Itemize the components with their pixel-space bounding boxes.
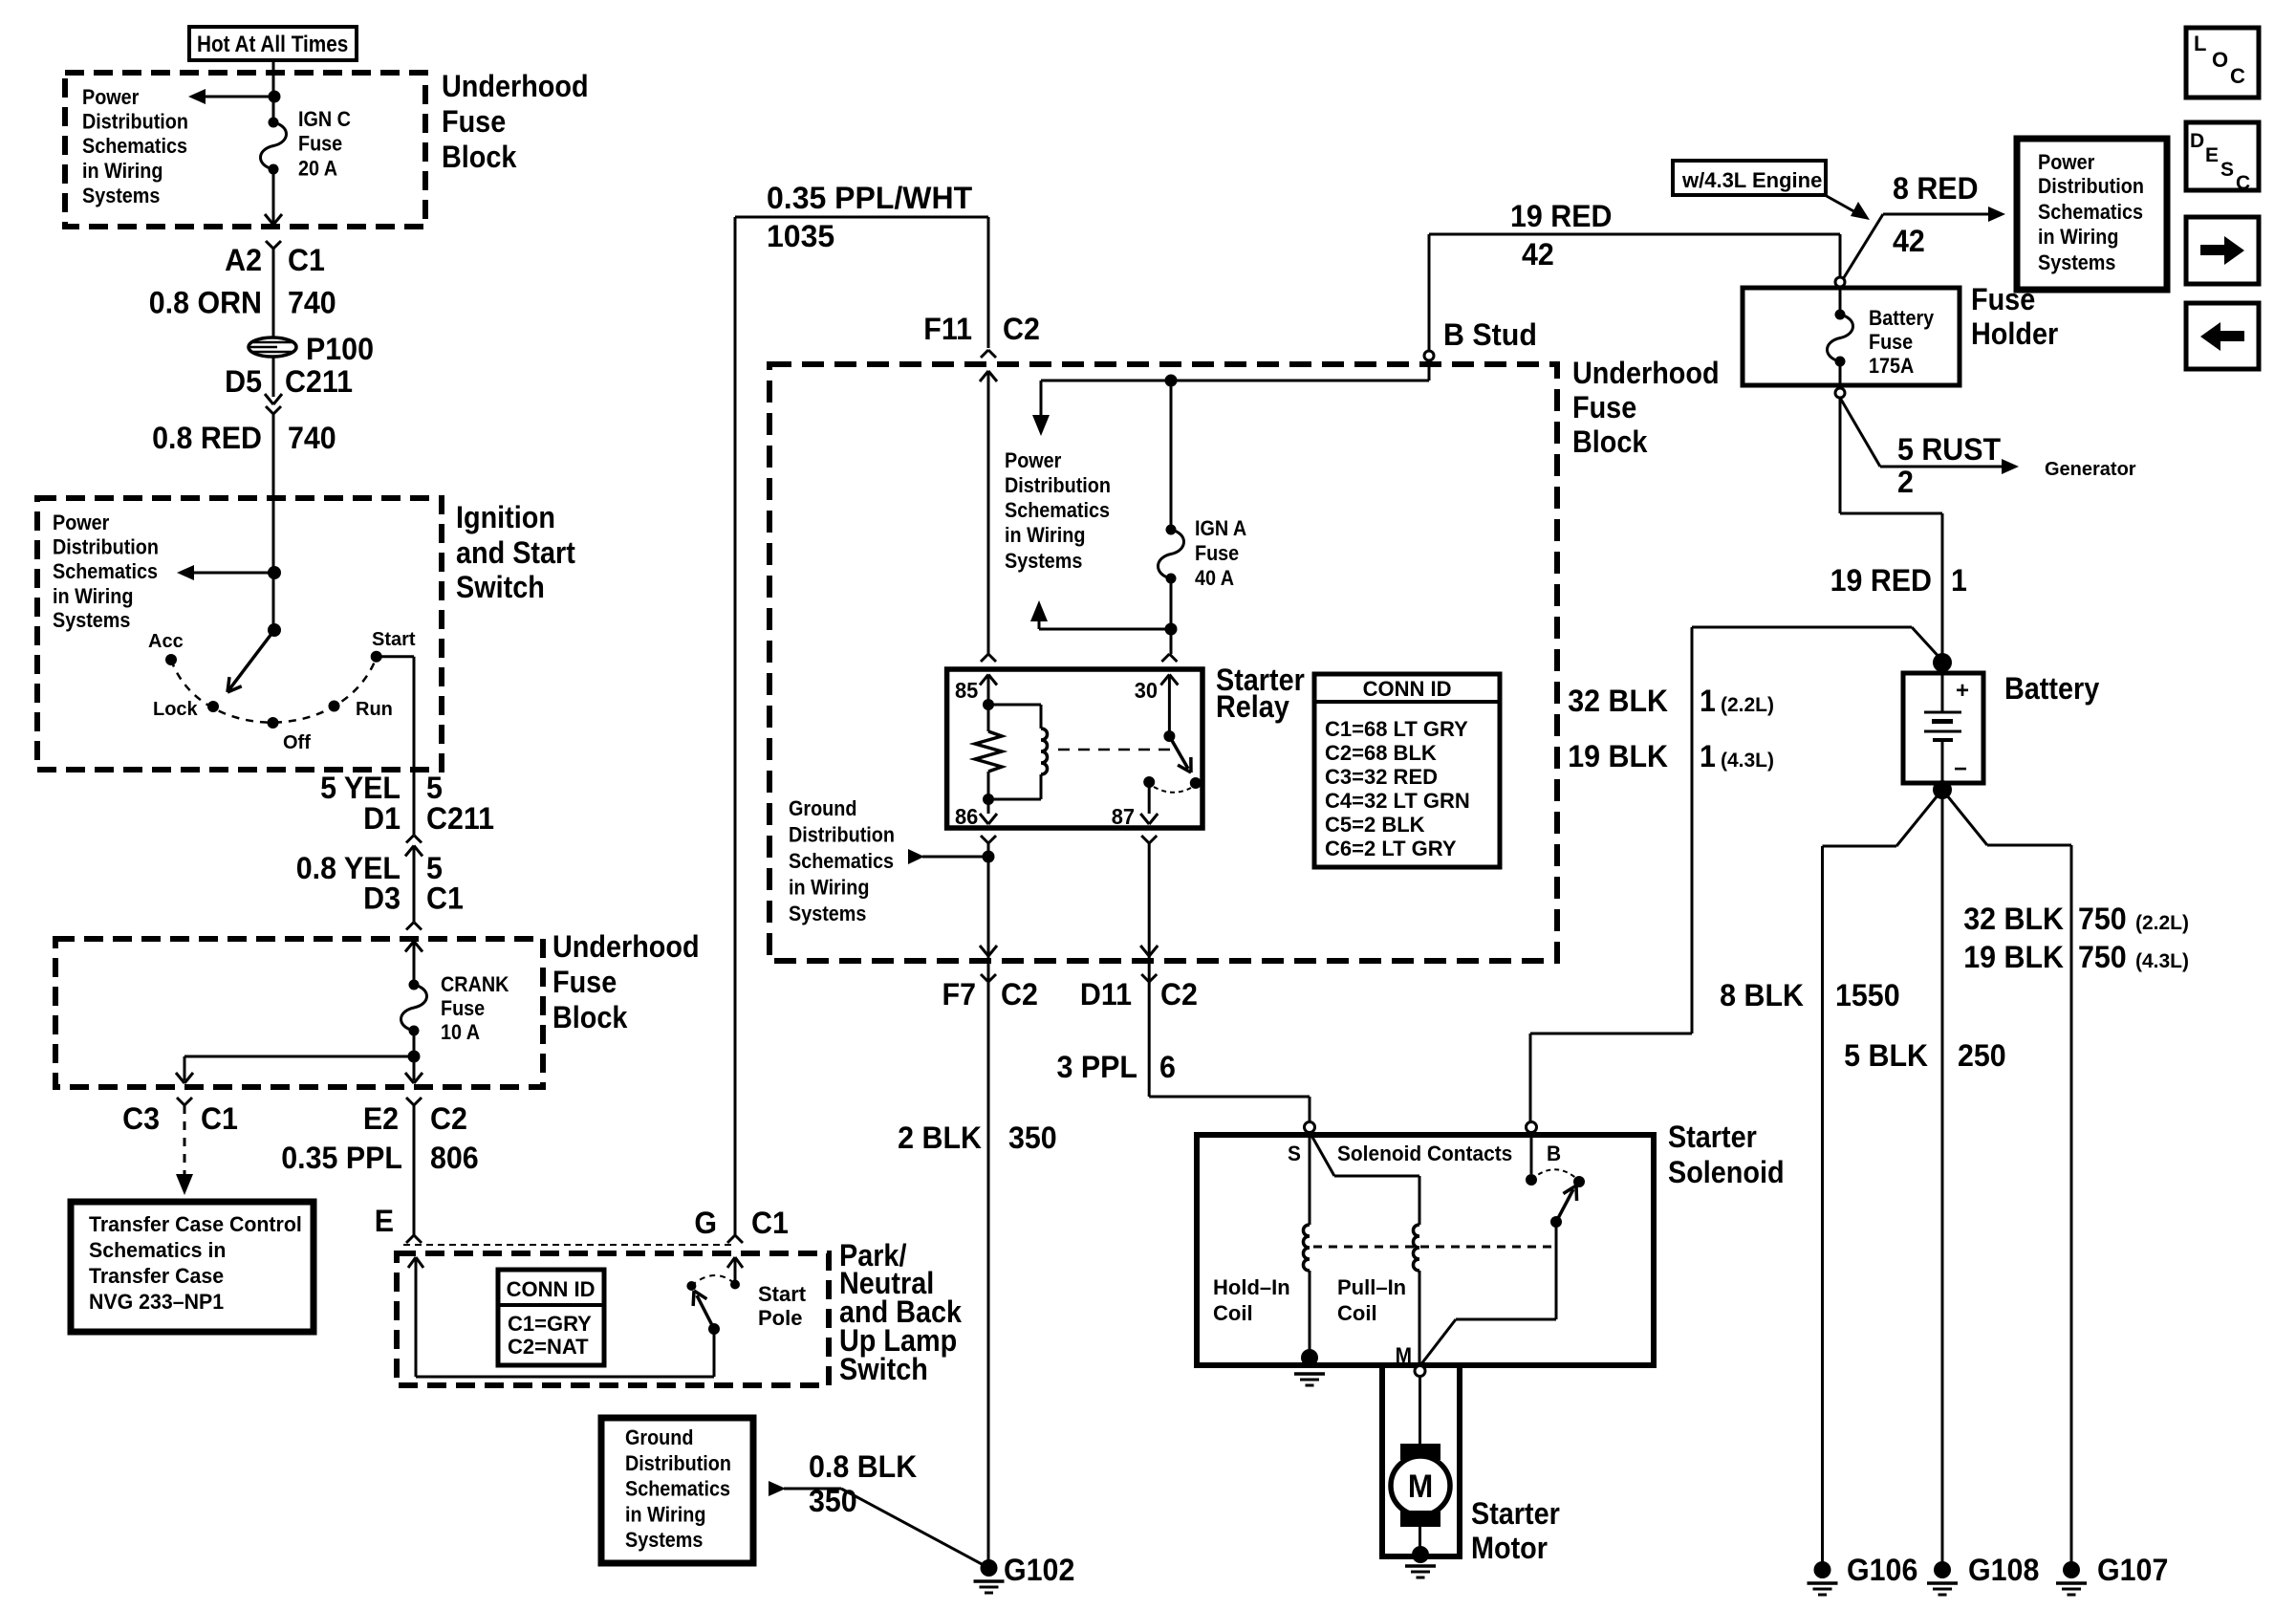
svg-text:806: 806 — [430, 1141, 479, 1175]
svg-text:Distribution: Distribution — [789, 824, 895, 847]
svg-text:in Wiring: in Wiring — [1005, 524, 1085, 547]
svg-text:CONN ID: CONN ID — [1363, 677, 1452, 701]
svg-text:175A: 175A — [1869, 355, 1914, 378]
svg-text:Ground: Ground — [789, 797, 856, 820]
svg-text:C211: C211 — [285, 364, 353, 399]
svg-text:O: O — [2212, 48, 2228, 72]
svg-text:Ground: Ground — [625, 1426, 693, 1449]
svg-text:40 A: 40 A — [1195, 567, 1234, 590]
svg-text:19 BLK: 19 BLK — [1568, 739, 1668, 773]
svg-text:19 RED: 19 RED — [1510, 199, 1612, 233]
svg-text:Relay: Relay — [1216, 690, 1289, 725]
svg-text:Distribution: Distribution — [2038, 175, 2144, 198]
svg-text:5 RUST: 5 RUST — [1897, 432, 2001, 467]
svg-text:Systems: Systems — [789, 903, 866, 925]
svg-text:Systems: Systems — [1005, 550, 1082, 573]
svg-text:5 YEL: 5 YEL — [320, 771, 401, 805]
svg-text:S: S — [1288, 1142, 1301, 1166]
svg-text:M: M — [1408, 1468, 1433, 1504]
svg-text:Fuse: Fuse — [1195, 542, 1239, 565]
svg-text:Motor: Motor — [1471, 1532, 1548, 1566]
svg-text:20 A: 20 A — [298, 158, 337, 181]
svg-text:Fuse: Fuse — [298, 133, 342, 156]
svg-text:Starter: Starter — [1668, 1120, 1757, 1155]
svg-text:10 A: 10 A — [441, 1021, 480, 1044]
svg-text:19 BLK: 19 BLK — [1963, 940, 2064, 974]
svg-text:1550: 1550 — [1835, 978, 1900, 1012]
svg-text:750: 750 — [2078, 902, 2127, 936]
svg-text:Fuse: Fuse — [1869, 331, 1913, 354]
svg-text:0.35 PPL/WHT: 0.35 PPL/WHT — [767, 181, 973, 215]
svg-text:Hot At All Times: Hot At All Times — [197, 32, 348, 57]
svg-text:D1: D1 — [363, 801, 401, 836]
svg-text:in Wiring: in Wiring — [625, 1504, 705, 1527]
svg-text:8 RED: 8 RED — [1893, 171, 1979, 206]
svg-text:42: 42 — [1893, 224, 1925, 258]
svg-text:0.35 PPL: 0.35 PPL — [281, 1141, 402, 1175]
svg-text:C1: C1 — [426, 881, 464, 916]
svg-text:Lock: Lock — [153, 699, 199, 720]
svg-text:Ignition: Ignition — [456, 501, 555, 535]
svg-text:CRANK: CRANK — [441, 973, 509, 996]
svg-text:M: M — [1396, 1344, 1412, 1368]
svg-text:D: D — [2190, 130, 2204, 152]
svg-text:Battery: Battery — [1869, 307, 1935, 330]
svg-text:D3: D3 — [363, 881, 401, 916]
svg-text:B: B — [1547, 1142, 1561, 1166]
svg-text:2 BLK: 2 BLK — [898, 1120, 982, 1155]
svg-text:Schematics: Schematics — [1005, 499, 1110, 522]
svg-text:C1=68 LT GRY: C1=68 LT GRY — [1325, 717, 1468, 741]
svg-text:Underhood: Underhood — [442, 70, 589, 104]
svg-text:C3: C3 — [122, 1101, 160, 1136]
svg-text:Generator: Generator — [2045, 459, 2136, 480]
svg-text:30: 30 — [1135, 678, 1158, 703]
svg-text:2: 2 — [1897, 465, 1914, 499]
svg-text:Start: Start — [758, 1282, 807, 1306]
svg-text:250: 250 — [1958, 1038, 2006, 1073]
svg-text:C: C — [2230, 64, 2245, 88]
svg-text:D5: D5 — [225, 364, 262, 399]
svg-text:Pole: Pole — [758, 1306, 802, 1330]
svg-text:740: 740 — [288, 421, 336, 455]
svg-text:0.8 RED: 0.8 RED — [152, 421, 262, 455]
svg-text:87: 87 — [1112, 804, 1135, 829]
svg-text:F11: F11 — [923, 312, 972, 346]
svg-text:Acc: Acc — [148, 631, 184, 652]
svg-text:C: C — [2236, 172, 2250, 194]
svg-text:w/4.3L Engine: w/4.3L Engine — [1681, 168, 1822, 192]
svg-text:G106: G106 — [1847, 1553, 1917, 1587]
svg-text:Battery: Battery — [2004, 672, 2099, 707]
svg-text:Systems: Systems — [53, 609, 130, 632]
svg-text:Off: Off — [283, 732, 311, 753]
svg-text:IGN C: IGN C — [298, 108, 351, 131]
svg-text:Coil: Coil — [1213, 1301, 1253, 1325]
svg-text:CONN ID: CONN ID — [507, 1277, 596, 1301]
svg-text:8 BLK: 8 BLK — [1720, 978, 1804, 1012]
svg-text:Fuse: Fuse — [442, 105, 506, 140]
svg-text:L: L — [2194, 32, 2206, 55]
svg-text:C2=68 BLK: C2=68 BLK — [1325, 741, 1437, 765]
svg-text:Switch: Switch — [839, 1353, 928, 1387]
svg-text:1: 1 — [1700, 684, 1716, 718]
svg-text:C1: C1 — [288, 243, 325, 277]
svg-text:C5=2 BLK: C5=2 BLK — [1325, 813, 1425, 837]
svg-text:G102: G102 — [1004, 1553, 1074, 1587]
svg-text:740: 740 — [288, 286, 336, 320]
svg-text:Transfer Case: Transfer Case — [89, 1264, 224, 1288]
svg-text:Distribution: Distribution — [53, 536, 159, 559]
svg-text:0.8 BLK: 0.8 BLK — [809, 1449, 918, 1484]
svg-text:Schematics: Schematics — [53, 560, 158, 583]
svg-text:0.8 ORN: 0.8 ORN — [149, 286, 262, 320]
svg-text:C1: C1 — [201, 1101, 238, 1136]
svg-text:Power: Power — [1005, 449, 1061, 472]
svg-text:Fuse: Fuse — [441, 997, 485, 1020]
svg-text:Systems: Systems — [82, 185, 160, 207]
svg-text:1: 1 — [1951, 563, 1967, 598]
svg-text:(4.3L): (4.3L) — [2135, 950, 2189, 972]
svg-text:Coil: Coil — [1337, 1301, 1377, 1325]
svg-text:NVG 233–NP1: NVG 233–NP1 — [89, 1290, 224, 1314]
svg-text:350: 350 — [1008, 1120, 1057, 1155]
svg-text:3 PPL: 3 PPL — [1057, 1050, 1137, 1084]
svg-text:85: 85 — [955, 678, 978, 703]
svg-text:86: 86 — [955, 804, 978, 829]
svg-text:C1: C1 — [751, 1206, 789, 1240]
svg-text:Power: Power — [2038, 151, 2094, 174]
svg-text:0.8 YEL: 0.8 YEL — [296, 851, 401, 885]
svg-text:B Stud: B Stud — [1443, 317, 1537, 352]
svg-text:Switch: Switch — [456, 571, 545, 605]
svg-text:Solenoid Contacts: Solenoid Contacts — [1337, 1142, 1512, 1166]
svg-text:(2.2L): (2.2L) — [2135, 912, 2189, 934]
svg-text:Distribution: Distribution — [625, 1452, 731, 1475]
svg-text:6: 6 — [1159, 1050, 1176, 1084]
svg-text:C211: C211 — [426, 801, 494, 836]
svg-text:C1=GRY: C1=GRY — [508, 1312, 592, 1336]
svg-text:(2.2L): (2.2L) — [1721, 694, 1774, 716]
svg-text:Fuse: Fuse — [1572, 391, 1636, 425]
svg-text:P100: P100 — [306, 332, 374, 366]
svg-text:in Wiring: in Wiring — [82, 160, 162, 183]
svg-text:1: 1 — [1700, 739, 1716, 773]
svg-text:32 BLK: 32 BLK — [1568, 684, 1668, 718]
svg-text:D11: D11 — [1080, 977, 1132, 1012]
svg-text:5: 5 — [426, 771, 443, 805]
svg-text:Schematics: Schematics — [2038, 201, 2143, 224]
svg-text:Systems: Systems — [2038, 251, 2115, 274]
svg-text:C4=32 LT GRN: C4=32 LT GRN — [1325, 789, 1470, 813]
svg-text:S: S — [2220, 159, 2234, 181]
svg-text:C2: C2 — [1001, 977, 1038, 1012]
svg-text:Underhood: Underhood — [1572, 357, 1720, 391]
svg-text:and Start: and Start — [456, 536, 575, 571]
svg-text:C6=2 LT GRY: C6=2 LT GRY — [1325, 837, 1457, 860]
svg-text:Schematics: Schematics — [82, 135, 187, 158]
svg-text:in Wiring: in Wiring — [53, 585, 133, 608]
svg-text:Starter: Starter — [1471, 1497, 1560, 1532]
svg-text:G: G — [694, 1206, 717, 1240]
svg-text:Power: Power — [82, 86, 139, 109]
svg-text:Distribution: Distribution — [82, 111, 188, 134]
svg-text:Systems: Systems — [625, 1529, 703, 1552]
svg-text:Schematics in: Schematics in — [89, 1238, 226, 1262]
svg-text:1035: 1035 — [767, 219, 834, 253]
svg-text:Solenoid: Solenoid — [1668, 1156, 1785, 1190]
svg-text:350: 350 — [809, 1484, 857, 1518]
svg-text:19 RED: 19 RED — [1830, 563, 1932, 598]
svg-text:(4.3L): (4.3L) — [1721, 750, 1774, 772]
svg-text:G107: G107 — [2097, 1553, 2168, 1587]
svg-text:Transfer Case Control: Transfer Case Control — [89, 1212, 302, 1236]
svg-text:Hold–In: Hold–In — [1213, 1275, 1290, 1299]
svg-text:+: + — [1956, 678, 1969, 704]
svg-text:E: E — [375, 1204, 394, 1238]
svg-text:F7: F7 — [942, 977, 976, 1012]
svg-text:Start: Start — [372, 629, 416, 650]
svg-text:Holder: Holder — [1971, 317, 2058, 352]
svg-text:Distribution: Distribution — [1005, 474, 1111, 497]
svg-text:C2: C2 — [430, 1101, 467, 1136]
svg-text:E2: E2 — [363, 1101, 399, 1136]
svg-text:5 BLK: 5 BLK — [1844, 1038, 1928, 1073]
svg-text:Pull–In: Pull–In — [1337, 1275, 1406, 1299]
svg-text:Block: Block — [1572, 425, 1647, 460]
svg-text:Underhood: Underhood — [552, 930, 700, 965]
svg-text:IGN A: IGN A — [1195, 517, 1246, 540]
svg-text:42: 42 — [1522, 237, 1554, 272]
svg-text:in Wiring: in Wiring — [789, 877, 869, 900]
svg-text:G108: G108 — [1968, 1553, 2039, 1587]
svg-text:Schematics: Schematics — [789, 850, 894, 873]
svg-text:−: − — [1954, 756, 1967, 782]
svg-text:Schematics: Schematics — [625, 1478, 730, 1501]
svg-text:C2=NAT: C2=NAT — [508, 1335, 589, 1359]
svg-text:C2: C2 — [1003, 312, 1040, 346]
svg-text:E: E — [2205, 144, 2219, 166]
svg-text:A2: A2 — [225, 243, 262, 277]
svg-text:Block: Block — [442, 141, 516, 175]
svg-text:750: 750 — [2078, 940, 2127, 974]
svg-text:Block: Block — [552, 1001, 627, 1035]
svg-text:C3=32 RED: C3=32 RED — [1325, 765, 1438, 789]
svg-text:Run: Run — [356, 699, 393, 720]
svg-text:Fuse: Fuse — [552, 966, 617, 1000]
svg-text:C2: C2 — [1160, 977, 1198, 1012]
svg-text:32 BLK: 32 BLK — [1963, 902, 2064, 936]
svg-text:in Wiring: in Wiring — [2038, 226, 2118, 249]
svg-text:Power: Power — [53, 511, 109, 534]
svg-text:5: 5 — [426, 851, 443, 885]
